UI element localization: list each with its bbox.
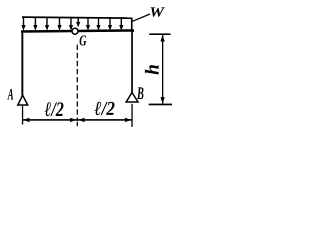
load right end bar	[131, 18, 133, 31]
load arrow 1	[21, 17, 25, 31]
label l/2 left	[45, 102, 64, 116]
dim arrow center-left	[70, 118, 77, 122]
dim arrow center-right	[78, 118, 85, 122]
load arrow 7	[86, 17, 90, 31]
beam	[21, 29, 134, 33]
load arrow 5	[69, 17, 73, 31]
load arrow 2	[33, 17, 37, 31]
dashed center line	[76, 45, 78, 121]
load arrow 4	[57, 17, 61, 31]
h arrow up	[160, 35, 164, 42]
extension line below A	[22, 106, 23, 125]
label l/2 right	[94, 102, 114, 115]
h arrow down	[160, 97, 164, 104]
leader line to W	[133, 14, 151, 21]
load arrow 9	[108, 17, 112, 31]
label G	[80, 36, 87, 46]
support triangle A	[18, 95, 28, 105]
load arrow 10	[119, 17, 123, 31]
h top tick	[149, 33, 170, 35]
load arrow 8	[96, 17, 100, 31]
distributed load line	[22, 16, 132, 19]
extension line below B	[131, 104, 132, 127]
h dimension line	[162, 35, 163, 104]
label B	[137, 87, 144, 99]
center line solid tail below dimension line	[77, 122, 78, 126]
h bottom tick	[149, 104, 172, 106]
right leg	[131, 30, 133, 93]
dimension line	[23, 119, 132, 121]
label h rotated	[145, 65, 159, 74]
dim arrow left	[23, 118, 30, 122]
centroid circle G	[72, 28, 78, 34]
dim arrow right	[125, 118, 131, 122]
load arrow 3	[45, 17, 49, 31]
label W	[150, 7, 164, 16]
left leg	[21, 31, 23, 96]
label A	[7, 89, 13, 100]
load arrow 6 short onto circle G	[76, 17, 80, 27]
support triangle B	[126, 93, 138, 103]
